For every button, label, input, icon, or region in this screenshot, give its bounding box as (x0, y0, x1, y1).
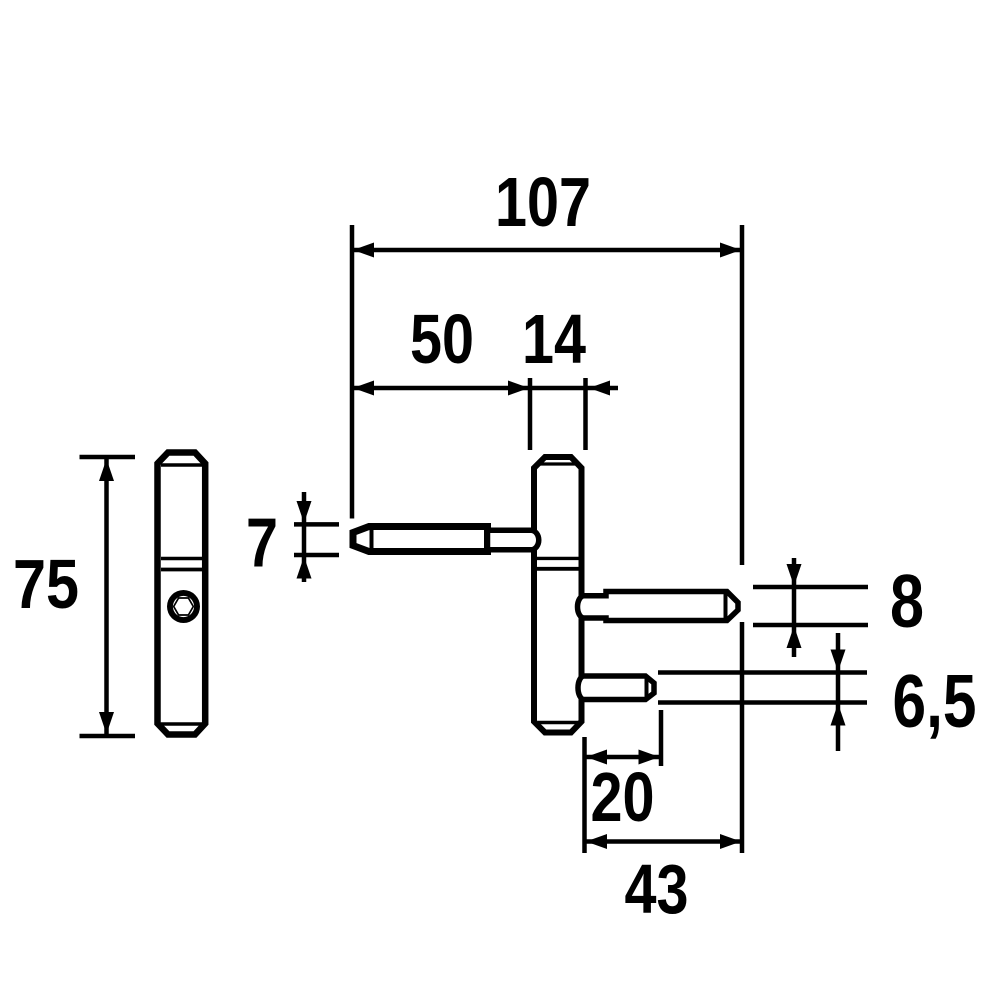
svg-text:14: 14 (522, 300, 586, 378)
svg-text:43: 43 (625, 850, 689, 928)
svg-text:50: 50 (410, 300, 474, 378)
svg-text:75: 75 (13, 545, 79, 623)
svg-text:6,5: 6,5 (893, 659, 977, 743)
svg-text:107: 107 (495, 163, 591, 241)
svg-text:8: 8 (890, 559, 924, 643)
svg-text:20: 20 (591, 758, 655, 836)
svg-text:7: 7 (246, 504, 278, 582)
